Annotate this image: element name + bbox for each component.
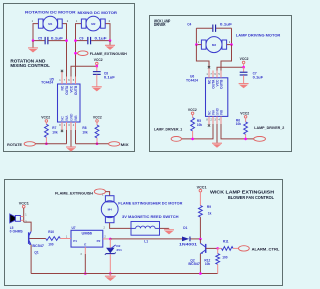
wire Q1 collector to speaker xyxy=(24,222,31,231)
wire M3 pin1 stub xyxy=(196,44,201,46)
title WICK LAMP DRIVER xyxy=(154,18,170,27)
svg-text:VCC2: VCC2 xyxy=(240,57,249,61)
junction R8 on mix bus xyxy=(96,142,99,145)
svg-text:0.1uF: 0.1uF xyxy=(253,75,264,79)
svg-text:10k: 10k xyxy=(205,262,211,266)
svg-text:VCC1: VCC1 xyxy=(19,201,29,205)
svg-text:0.1uF: 0.1uF xyxy=(104,75,115,79)
wire U6 INA to lamp driver 1 bus xyxy=(181,116,213,138)
wire U6 VCC pin to VCC2 xyxy=(217,67,244,78)
svg-text:MIXING CONTROL: MIXING CONTROL xyxy=(10,63,50,68)
wire U7 P2 to D2/D1 line xyxy=(103,238,111,240)
U6 NC pin stub top with no-connect x xyxy=(208,66,210,78)
node FLAME_EXTINGUISH (box3) xyxy=(55,189,106,195)
svg-text:ALARM_CTRL: ALARM_CTRL xyxy=(252,248,281,252)
pin stubs U5 bottom xyxy=(67,122,76,130)
svg-text:U7: U7 xyxy=(72,226,76,230)
wire emitter ground bus xyxy=(31,273,218,275)
svg-text:BC547: BC547 xyxy=(188,262,200,266)
wire C5 row xyxy=(33,40,45,42)
capacitor C5 xyxy=(38,37,48,45)
junction at C5 left xyxy=(32,39,35,42)
node ALARM_CTRL xyxy=(239,246,281,252)
power VCC2 above R8 xyxy=(93,115,102,125)
wire M2 pin1 down to U5 OUTB xyxy=(76,24,82,84)
node LAMP_DRIVER_2 xyxy=(254,126,285,141)
transistor Q1 BC547 xyxy=(29,231,32,245)
pin stubs U6 bottom xyxy=(213,116,221,124)
svg-text:0.1uF: 0.1uF xyxy=(220,23,232,27)
U6 NC pin stub bottom with no-connect x xyxy=(208,116,210,126)
svg-text:LAMP_DRIVER_2: LAMP_DRIVER_2 xyxy=(254,126,284,130)
junction R7 on rotate bus xyxy=(45,142,48,145)
ground below U6 xyxy=(212,142,222,144)
wire D1 line xyxy=(110,238,182,240)
node LAMP_DRIVER_1 xyxy=(154,127,182,141)
svg-text:INA: INA xyxy=(65,115,69,121)
U5 NC pin stub top with no-connect x xyxy=(61,70,63,84)
zener diode D2 xyxy=(105,239,121,255)
svg-text:0 OHMS: 0 OHMS xyxy=(10,230,23,234)
wire U6 INB to lamp driver 2 bus xyxy=(221,116,254,138)
wire mix bus xyxy=(76,143,109,145)
svg-text:TC4424: TC4424 xyxy=(41,81,53,85)
wire M3 pin2 to U6 OUTB xyxy=(221,45,232,78)
svg-text:P2: P2 xyxy=(97,239,101,243)
motor M3 xyxy=(201,37,226,53)
wire M3 pin1 to U6 OUTA xyxy=(196,45,209,78)
title WICK LAMP EXTINGUISH BLOWER FAN CONTROL xyxy=(210,189,274,200)
wire D2 to ground bus xyxy=(109,254,111,273)
node ROTATE xyxy=(7,142,35,147)
junction VCC2/C8 xyxy=(96,65,99,68)
junction M3 pin1 / C4 xyxy=(195,43,198,46)
ground below C8 xyxy=(92,86,102,88)
motor M2 xyxy=(81,16,105,31)
wire Q2 base to R11/R12 xyxy=(206,247,218,249)
svg-text:E: E xyxy=(84,242,86,246)
svg-text:FLAME_EXTINGUISH: FLAME_EXTINGUISH xyxy=(90,52,127,56)
transistor Q2 BC547 xyxy=(200,239,205,254)
svg-text:M2: M2 xyxy=(91,22,95,26)
power VCC2 above C8 xyxy=(94,58,103,66)
svg-text:10k: 10k xyxy=(52,130,58,134)
resistor R11 xyxy=(218,240,239,251)
op-amp driver U5 TC4424 body xyxy=(58,84,81,122)
svg-text:VCC2: VCC2 xyxy=(41,115,50,119)
svg-text:10k: 10k xyxy=(197,123,203,127)
wire U5 INB down to mix bus xyxy=(75,122,77,144)
svg-text:C5: C5 xyxy=(38,37,42,41)
ground at reed switch xyxy=(164,228,174,234)
svg-text:1N4001: 1N4001 xyxy=(179,243,197,247)
svg-text:GND: GND xyxy=(69,113,73,121)
svg-text:3V1: 3V1 xyxy=(116,248,122,252)
power VCC2 above R5 xyxy=(188,108,197,118)
wire rotate bus xyxy=(35,143,66,145)
wire R9 to D1 junction xyxy=(199,217,201,239)
svg-text:VCC2: VCC2 xyxy=(93,115,102,119)
svg-text:BLOWER FAN CONTROL: BLOWER FAN CONTROL xyxy=(228,195,274,200)
wire U6 GND down xyxy=(216,116,218,143)
junction FLAME_EXTINGUISH on OUTB wire xyxy=(74,52,77,55)
svg-text:LAMP DRIVING MOTOR: LAMP DRIVING MOTOR xyxy=(236,34,281,38)
svg-text:3V MAGNETIC REED SWITCH: 3V MAGNETIC REED SWITCH xyxy=(122,215,179,219)
svg-text:VCC1: VCC1 xyxy=(197,185,207,189)
op-amp driver U6 TC4424 body xyxy=(206,78,228,117)
svg-text:Q1: Q1 xyxy=(34,251,38,255)
wire R10 to Q1 base xyxy=(29,238,46,240)
svg-text:INB: INB xyxy=(74,115,78,120)
svg-text:D1: D1 xyxy=(183,226,187,230)
junction VCC2/C7 xyxy=(242,66,245,69)
junction R9/D1/Q2 xyxy=(199,238,202,241)
svg-text:P1: P1 xyxy=(73,239,77,243)
svg-text:NC: NC xyxy=(60,116,64,121)
svg-text:UM66: UM66 xyxy=(82,232,93,236)
junction at C9 right xyxy=(109,39,112,42)
junction R6 on bus xyxy=(244,138,247,141)
svg-text:100: 100 xyxy=(222,256,228,260)
junction at C5 right xyxy=(65,39,68,42)
svg-text:10k: 10k xyxy=(236,122,242,126)
wire M3 pin2 stub xyxy=(227,44,232,46)
wire Q1 emitter to bus xyxy=(30,245,32,274)
svg-text:WICK LAMP EXTINGUISH: WICK LAMP EXTINGUISH xyxy=(210,189,274,194)
ground below M1 xyxy=(28,41,38,53)
ground below M2 xyxy=(105,41,115,50)
svg-text:R9: R9 xyxy=(207,205,211,209)
power VCC2 above R6 xyxy=(240,111,249,122)
melody IC U7 UM66 body xyxy=(71,230,103,247)
U5 NC pin stub bottom with no-connect x xyxy=(61,122,63,132)
resistor R10 xyxy=(46,230,71,241)
wire VCC2 to U5 VCC pin xyxy=(71,66,97,84)
sub-circuit box: wick lamp driver xyxy=(150,16,292,152)
title ROTATION AND MIXING CONTROL xyxy=(10,58,50,68)
pin numbers top of U5 xyxy=(59,79,74,82)
capacitor C9 xyxy=(79,37,91,45)
sub-circuit box: rotation and mixing control xyxy=(4,4,135,152)
wire FLAME_EXTINGUISH to M4 pin1 xyxy=(106,192,110,196)
diode D1 1N4001 xyxy=(182,226,191,241)
svg-text:ROTATE: ROTATE xyxy=(7,143,22,147)
svg-text:TC4424: TC4424 xyxy=(186,79,198,83)
pin numbers bottom of U6 xyxy=(206,118,220,121)
svg-text:1k: 1k xyxy=(208,212,212,216)
capacitor C7 xyxy=(240,67,257,83)
pin numbers bottom of U5 xyxy=(59,124,74,127)
svg-text:R10: R10 xyxy=(48,230,54,234)
power VCC1 above speaker xyxy=(19,201,29,208)
junction R5 on bus xyxy=(191,138,194,141)
svg-text:R11: R11 xyxy=(223,240,229,244)
resistor R12 xyxy=(204,248,219,273)
svg-text:FLAME EXTINGUISHER DC MOTOR: FLAME EXTINGUISHER DC MOTOR xyxy=(118,201,183,205)
resistor R5 xyxy=(191,118,202,139)
junction E pin on bus xyxy=(84,272,87,275)
wire U7 E pin to ground bus xyxy=(84,247,86,273)
power VCC1 above R9 xyxy=(197,185,207,205)
svg-text:INB: INB xyxy=(219,110,223,115)
wire M2 pin2 to C9 right / ground xyxy=(105,24,110,41)
svg-text:M4: M4 xyxy=(108,207,112,211)
wire M1 pin2 down to U5 OUTA xyxy=(62,24,67,84)
wire U5 INA down to rotate bus xyxy=(66,122,68,144)
svg-text:C4: C4 xyxy=(187,23,191,27)
svg-text:M3: M3 xyxy=(212,43,216,47)
svg-text:100: 100 xyxy=(48,243,54,247)
resistor R9 xyxy=(199,205,212,217)
wire M4 pin2 to reed switch xyxy=(110,223,131,229)
junction at C9 left xyxy=(74,39,77,42)
wire C9 row xyxy=(76,40,88,42)
junction Q2 emitter on bus xyxy=(199,272,202,275)
ground below U5 xyxy=(66,146,76,148)
wire D1 cathode to R9 junction xyxy=(191,238,201,240)
svg-text:0.1uF: 0.1uF xyxy=(95,37,107,41)
node FLAME_EXTINGUISH (box1) xyxy=(76,51,128,56)
wire C4 left down to M3 pin1 xyxy=(195,28,197,44)
svg-text:FLAME_EXTINGUISH: FLAME_EXTINGUISH xyxy=(55,191,93,195)
svg-text:DRIVER: DRIVER xyxy=(154,22,166,27)
svg-text:VCC2: VCC2 xyxy=(94,58,103,62)
svg-text:BC547: BC547 xyxy=(32,244,44,248)
wire reed switch to ground xyxy=(160,227,170,229)
ground below C7 xyxy=(239,83,249,85)
junction base/R11/R12 xyxy=(216,247,219,250)
pin numbers top of U6 xyxy=(206,73,220,76)
motor M4 flame extinguisher xyxy=(101,196,118,223)
svg-text:M1: M1 xyxy=(48,22,52,26)
svg-text:MIX: MIX xyxy=(121,143,130,147)
svg-text:L1: L1 xyxy=(144,239,148,243)
resistor R8 xyxy=(82,125,99,144)
svg-text:VCC2: VCC2 xyxy=(188,108,197,112)
svg-text:OUTB: OUTB xyxy=(219,79,223,89)
junction D2 on bus xyxy=(109,272,112,275)
sub-circuit box: wick lamp extinguish blower fan control xyxy=(5,180,283,286)
pin stubs U6 top xyxy=(213,71,221,78)
svg-text:VCC2: VCC2 xyxy=(240,111,249,115)
power VCC2 above C7 xyxy=(240,57,249,67)
reed switch L1 xyxy=(131,222,160,236)
wire Q2 emitter to bus xyxy=(199,254,201,274)
resistor R6 xyxy=(236,119,248,139)
pin stubs U5 top xyxy=(67,77,76,85)
wire C4 row xyxy=(196,27,212,29)
wire C4 right down to M3 pin2 xyxy=(231,28,233,44)
svg-text:VCC: VCC xyxy=(69,85,73,93)
svg-text:NC: NC xyxy=(60,85,64,90)
junction M3 pin2 / C4 xyxy=(230,43,233,46)
speaker L5 xyxy=(10,214,24,230)
resistor R7 xyxy=(45,124,57,143)
motor M1 xyxy=(38,16,62,31)
wire VCC1 down to speaker xyxy=(23,208,25,222)
svg-text:OUTA: OUTA xyxy=(65,85,69,95)
ground below bus xyxy=(105,274,116,282)
svg-text:C9: C9 xyxy=(79,37,83,41)
svg-text:LAMP_DRIVER_1: LAMP_DRIVER_1 xyxy=(154,127,182,131)
svg-text:OUTB: OUTB xyxy=(74,85,78,95)
wire U5 GND down xyxy=(70,122,72,147)
svg-text:0.1uF: 0.1uF xyxy=(51,37,63,41)
capacitor C4 xyxy=(212,25,213,32)
svg-text:ROTATION DC MOTOR: ROTATION DC MOTOR xyxy=(25,9,76,14)
node MIX xyxy=(109,142,130,147)
junction P2/D2 xyxy=(109,238,112,241)
svg-text:MIXING DC MOTOR: MIXING DC MOTOR xyxy=(78,10,118,15)
svg-text:10k: 10k xyxy=(82,130,88,134)
capacitor C8 xyxy=(93,66,108,87)
wire M1 pin1 to C5 left / ground xyxy=(33,24,39,41)
power VCC2 above R7 xyxy=(41,115,50,124)
